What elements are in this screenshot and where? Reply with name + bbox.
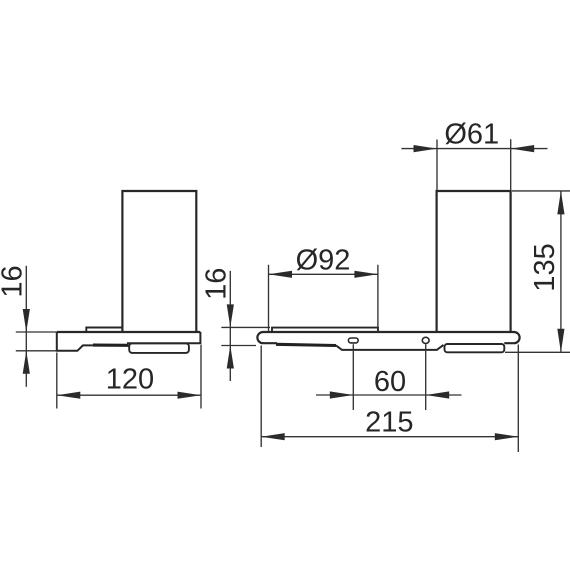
dimension D92: extension lines <box>269 265 378 332</box>
left figure: tumbler side view (cylinder) <box>122 191 196 332</box>
dimension 16 left: extension lines <box>16 332 57 351</box>
dimension 135: arrowheads <box>557 191 564 352</box>
dimension 120: extension lines <box>57 345 201 409</box>
dimension 16 left: label <box>0 265 29 297</box>
dimension D61: label <box>444 119 499 151</box>
dimension 120: label <box>106 364 154 396</box>
left figure: shelf top line <box>57 331 201 333</box>
dimension D61: dimension line <box>401 148 547 150</box>
svg-text:215: 215 <box>365 407 413 439</box>
left figure: holder ring tab below shelf <box>129 343 189 353</box>
svg-text:Ø92: Ø92 <box>296 244 351 276</box>
svg-text:135: 135 <box>529 243 561 291</box>
right figure: tumbler front view (cylinder) <box>437 191 511 332</box>
dimension D61: extension lines <box>437 139 511 191</box>
dimension 120: arrowheads <box>57 392 201 399</box>
dimension D92: arrowheads <box>269 271 378 278</box>
right figure: round screw hole <box>422 337 429 343</box>
dimension 120: dimension line <box>57 394 201 396</box>
dimension 215: arrowheads <box>261 433 518 440</box>
svg-text:Ø61: Ø61 <box>444 119 499 151</box>
dimension 135: label <box>529 243 561 291</box>
dimension 16 right: arrowheads <box>227 304 234 368</box>
dimension 135: dimension line <box>560 191 562 352</box>
left figure: wall plate profile <box>57 332 94 351</box>
dimension D92: label <box>296 244 351 276</box>
dimension 16 right: dimension line <box>229 271 231 381</box>
right figure: lower mounting contour <box>336 345 444 350</box>
dimension 215: dimension line <box>261 436 518 438</box>
dimension D92: dimension line <box>269 273 378 275</box>
dimension 60: label <box>374 366 406 398</box>
svg-text:16: 16 <box>0 265 29 297</box>
right figure: holder ring tab below shelf <box>445 344 505 352</box>
dimension 135: extension lines <box>505 191 570 352</box>
dimension 16 right: label <box>200 268 232 300</box>
dimension 16 right: extension lines <box>221 327 270 345</box>
right figure: dish lip above shelf <box>272 328 378 332</box>
dimension 16 left: arrowheads <box>23 309 30 374</box>
left figure: shelf right edge and bottom <box>127 332 200 343</box>
left figure: dish lip step left of cylinder <box>86 328 122 333</box>
svg-text:60: 60 <box>374 366 406 398</box>
dimension 60: extension lines <box>353 344 425 410</box>
dimension 16 left: dimension line <box>25 266 27 387</box>
dimension 215: label <box>365 407 413 439</box>
dimension 60: dimension line <box>316 394 462 396</box>
right figure: slot screw hole <box>348 338 358 343</box>
dimension D61: arrowheads <box>414 145 535 152</box>
left figure: dish bottom dark band <box>93 344 129 347</box>
dimension 60: arrowheads <box>330 391 449 398</box>
right figure: shelf with rounded ends <box>257 332 519 343</box>
right figure: dish bottom dark band <box>276 344 336 345</box>
dimension 215: extension lines <box>261 345 518 453</box>
svg-text:120: 120 <box>106 364 154 396</box>
svg-text:16: 16 <box>200 268 232 300</box>
